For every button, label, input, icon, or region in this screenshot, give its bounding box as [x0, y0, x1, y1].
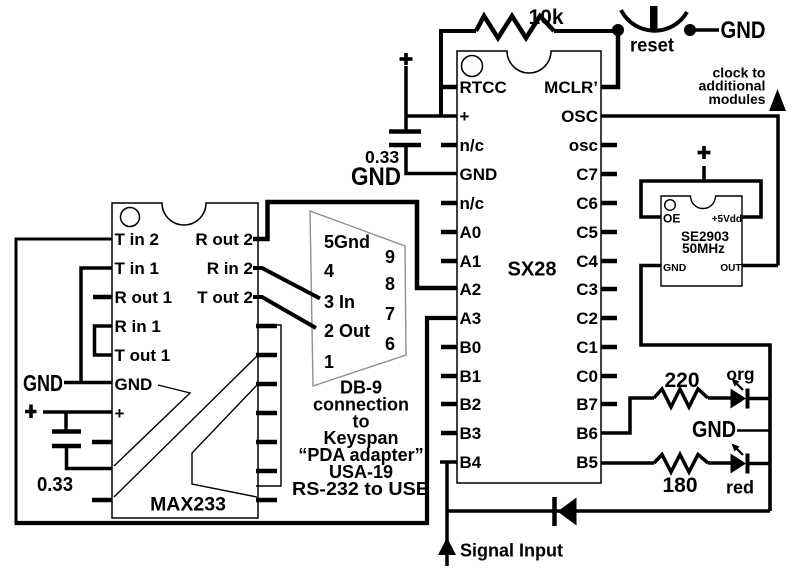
svg-text:MCLR’: MCLR’	[544, 78, 598, 97]
wire diode row	[447, 509, 770, 513]
svg-text:B6: B6	[576, 424, 598, 443]
svg-text:B0: B0	[460, 338, 482, 357]
svg-text:1: 1	[324, 352, 334, 372]
wire T in 1 to GND	[81, 268, 112, 383]
svg-text:T in 1: T in 1	[115, 259, 159, 278]
svg-text:B3: B3	[460, 424, 482, 443]
svg-text:C2: C2	[576, 309, 598, 328]
wire R in 2 to DB9 pin3	[253, 268, 320, 299]
svg-text:50MHz: 50MHz	[682, 241, 725, 256]
svg-text:T out 1: T out 1	[115, 346, 171, 365]
svg-text:B7: B7	[576, 395, 598, 414]
svg-text:Signal Input: Signal Input	[460, 541, 563, 561]
clock arrow	[769, 89, 786, 111]
svg-text:C6: C6	[576, 194, 598, 213]
svg-text:OUT: OUT	[720, 263, 741, 274]
svg-text:GND: GND	[23, 370, 63, 396]
svg-text:8: 8	[385, 274, 395, 294]
svg-text:red: red	[726, 478, 754, 498]
svg-text:A1: A1	[460, 252, 482, 271]
svg-text:2 Out: 2 Out	[324, 321, 370, 341]
wire cap C2 to MAX233 pin9	[67, 446, 113, 469]
svg-text:GND: GND	[460, 165, 498, 184]
wire A3 outer loop to T in 2	[15, 318, 458, 523]
internal line MAX233 c	[192, 385, 257, 497]
stub MAX233 left pin8	[92, 440, 112, 445]
SX28 right stubs	[601, 145, 617, 404]
clock label	[699, 65, 766, 108]
svg-text:R out 2: R out 2	[195, 230, 253, 249]
wire RTCC stub	[441, 85, 457, 90]
capacitor C1 0.33 plus symbol	[400, 53, 413, 65]
resistor R3 180	[654, 455, 708, 473]
node junction dot MCLR	[612, 24, 624, 36]
wire plus lead SE2903	[702, 166, 706, 182]
wire B5 to resistor	[601, 461, 654, 465]
svg-text:org: org	[726, 364, 754, 384]
svg-text:6: 6	[385, 334, 395, 354]
svg-text:+5Vdd: +5Vdd	[712, 214, 742, 225]
svg-text:SX28: SX28	[508, 259, 557, 281]
svg-text:180: 180	[662, 474, 697, 497]
resistor R2 220	[654, 389, 708, 407]
svg-text:R in 1: R in 1	[115, 317, 161, 336]
svg-text:n/c: n/c	[460, 136, 485, 155]
svg-text:5Gnd: 5Gnd	[324, 232, 370, 252]
svg-text:3 In: 3 In	[324, 292, 355, 312]
wire cap C1 to SX28 GND	[406, 145, 457, 174]
IC U2 SX28 pin labels right	[544, 78, 598, 472]
svg-text:GND: GND	[663, 262, 687, 274]
svg-text:C1: C1	[576, 338, 598, 357]
svg-text:OE: OE	[663, 212, 680, 226]
svg-text:A2: A2	[460, 280, 482, 299]
plus symbol left cap	[25, 405, 37, 419]
wire OSC to clock vertical	[601, 116, 778, 266]
wire +5V bracket SE2903	[641, 181, 761, 217]
capacitor C2 top lead	[64, 412, 68, 431]
wire resistor to LED1	[708, 396, 731, 400]
svg-text:0.33: 0.33	[37, 474, 73, 496]
svg-text:A0: A0	[460, 223, 482, 242]
SX28 left n/c and port stubs	[441, 145, 457, 433]
stub R out 1	[93, 295, 112, 300]
svg-text:C4: C4	[576, 252, 598, 271]
wire SX28 plus pin	[405, 114, 457, 118]
wire T out 2 to DB9 pin2	[253, 297, 316, 328]
connector J1 pin labels	[324, 232, 395, 372]
svg-text:C3: C3	[576, 280, 598, 299]
IC U2 SX28 pin labels left	[460, 78, 507, 472]
svg-text:+: +	[115, 404, 125, 423]
svg-text:R out 1: R out 1	[115, 288, 173, 307]
capacitor C2 plates	[52, 432, 81, 447]
capacitor C1 top lead	[404, 66, 408, 131]
svg-text:B2: B2	[460, 395, 482, 414]
svg-text:OSC: OSC	[561, 107, 598, 126]
wire B4 to signal input	[440, 460, 457, 464]
IC U1 MAX233 pin labels left	[115, 230, 173, 423]
thin bus right of MAX233	[256, 325, 281, 486]
svg-text:T in 2: T in 2	[115, 230, 159, 249]
svg-text:reset: reset	[630, 36, 675, 57]
wire GND label to MAX233	[64, 381, 112, 385]
svg-text:7: 7	[385, 304, 395, 324]
oscillator U3 labels	[663, 212, 742, 275]
svg-text:T out 2: T out 2	[197, 288, 253, 307]
wire SE2903 OUT	[742, 264, 778, 268]
plus symbol above SE2903	[698, 146, 711, 159]
svg-text:C0: C0	[576, 367, 598, 386]
svg-text:4: 4	[324, 261, 334, 281]
IC U2 SX28 body	[457, 51, 601, 483]
MAX233 right stubs	[256, 326, 277, 500]
svg-text:MAX233: MAX233	[150, 494, 226, 516]
wire resistor to node	[554, 29, 618, 33]
svg-text:A3: A3	[460, 309, 482, 328]
resistor R1 10k	[476, 16, 554, 38]
diode D1	[555, 497, 577, 526]
LED2 red	[731, 454, 771, 474]
svg-text:RTCC: RTCC	[460, 78, 507, 97]
svg-text:+: +	[460, 107, 470, 126]
connector J1 caption	[292, 378, 430, 499]
capacitor C1 plates	[389, 132, 421, 146]
wire SE2903 GND to ground line	[641, 266, 770, 512]
svg-text:RS-232 to USB: RS-232 to USB	[292, 479, 430, 499]
svg-text:modules: modules	[709, 91, 766, 107]
LED2 arrow	[732, 444, 744, 456]
connector J1 DB-9 outline	[310, 211, 406, 386]
svg-text:B5: B5	[576, 453, 598, 472]
node GND dot top right	[684, 24, 696, 36]
wire R out 2 to A2	[253, 202, 457, 288]
LED1 org	[731, 389, 771, 409]
svg-text:B4: B4	[460, 453, 482, 472]
wire resistor to LED2	[708, 461, 731, 465]
internal line MAX233 b	[114, 356, 257, 497]
signal input arrow	[438, 538, 456, 556]
IC U1 MAX233 body	[112, 203, 258, 518]
svg-text:R in 2: R in 2	[207, 259, 253, 278]
wire node to MCLR pin	[601, 30, 618, 87]
switch S1 reset arc	[621, 10, 687, 31]
svg-text:C7: C7	[576, 165, 598, 184]
internal line MAX233 a	[114, 385, 190, 466]
wire +5V rail to RTCC/+	[441, 31, 476, 116]
svg-text:GND: GND	[351, 163, 401, 191]
svg-text:B1: B1	[460, 367, 482, 386]
wire R in 1 to T out 1	[95, 326, 113, 355]
wire to GND top right	[690, 28, 719, 32]
stub MAX233 left pin10	[92, 498, 112, 503]
IC U1 MAX233 pin labels right	[195, 230, 253, 307]
switch S1 plunger	[650, 6, 658, 29]
svg-text:GND: GND	[721, 17, 766, 44]
wire B6 jog to resistor	[601, 398, 654, 433]
wire plus to MAX233	[43, 410, 112, 414]
svg-text:9: 9	[385, 247, 395, 267]
LED1 arrow	[732, 379, 744, 391]
svg-text:C5: C5	[576, 223, 598, 242]
svg-text:220: 220	[664, 369, 699, 392]
svg-text:n/c: n/c	[460, 194, 485, 213]
svg-text:GND: GND	[692, 416, 736, 442]
oscillator U3 SE2903 body	[661, 196, 742, 286]
svg-text:GND: GND	[115, 375, 153, 394]
svg-text:osc: osc	[569, 136, 598, 155]
svg-text:10k: 10k	[528, 6, 563, 29]
wire GND label to ground line	[737, 429, 770, 432]
